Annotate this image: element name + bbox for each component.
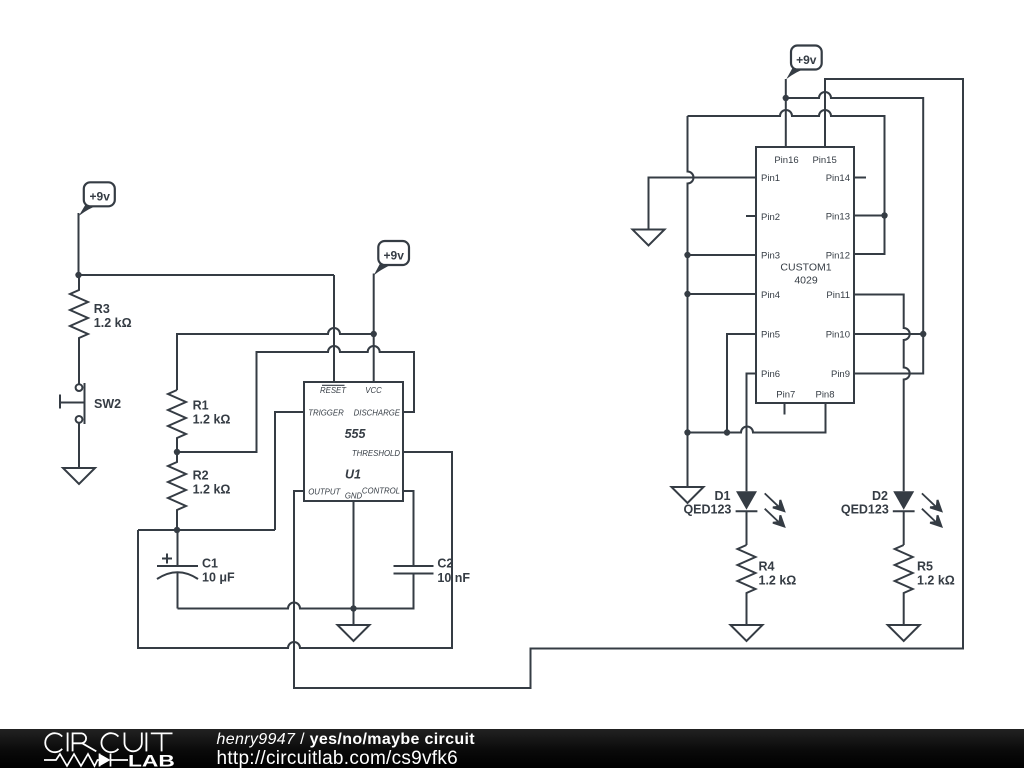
resistor R5 [895, 545, 913, 625]
resistor R3 [70, 275, 88, 384]
wire TRIGGER to R2 bottom [275, 412, 304, 530]
ground under R5 [888, 625, 920, 641]
svg-text:Pin1: Pin1 [761, 173, 780, 184]
wire Pin11 to D2 (x=905.5 with hops over y=334 and y=373.5) [854, 295, 910, 492]
switch SW2 [60, 383, 85, 468]
pin stub Pin7 [784, 403, 786, 415]
svg-text:1.2 kΩ: 1.2 kΩ [193, 412, 231, 426]
svg-text:Pin11: Pin11 [826, 290, 850, 301]
svg-text:QED123: QED123 [841, 503, 889, 517]
svg-text:Pin4: Pin4 [761, 290, 780, 301]
svg-text:CONTROL: CONTROL [362, 487, 400, 496]
diode D1 arrows [765, 493, 942, 526]
label CUSTOM1 4029 pin names [761, 155, 850, 401]
svg-text:TRIGGER: TRIGGER [308, 409, 344, 418]
ground under SW2 [63, 468, 95, 484]
diode D2 cathode bar and lead [893, 511, 915, 545]
svg-text:D2: D2 [872, 489, 888, 503]
svg-text:10 μF: 10 μF [202, 571, 235, 585]
svg-text:Pin3: Pin3 [761, 251, 780, 262]
svg-text:RESET: RESET [320, 386, 347, 395]
wire +9V rail to RESET (top-left horizontal) [79, 274, 335, 276]
power flag +9v right [786, 46, 822, 80]
svg-text:D1: D1 [715, 489, 731, 503]
svg-text:OUTPUT: OUTPUT [308, 488, 341, 497]
svg-text:+9v: +9v [384, 249, 405, 263]
footer bar [0, 729, 1024, 768]
svg-text:Pin7: Pin7 [776, 390, 795, 401]
svg-text:10 nF: 10 nF [437, 571, 470, 585]
svg-text:GND: GND [345, 492, 363, 501]
svg-text:C2: C2 [437, 557, 453, 571]
svg-text:Pin14: Pin14 [826, 173, 850, 184]
junction node VCC [371, 331, 377, 337]
svg-text:Pin10: Pin10 [826, 330, 850, 341]
svg-text:+9v: +9v [90, 189, 111, 203]
diode D1 triangle [736, 491, 757, 509]
svg-text:SW2: SW2 [94, 397, 121, 411]
wire 555 GND pin down [353, 501, 355, 609]
svg-text:R3: R3 [94, 302, 110, 316]
IC U1 555 timer box [304, 382, 403, 501]
label U1 pin names [308, 385, 401, 500]
svg-text:R5: R5 [917, 560, 933, 574]
svg-text:4029: 4029 [794, 275, 818, 287]
power flag +9v left [79, 182, 115, 216]
wire Pin10 [854, 333, 923, 335]
svg-text:Pin16: Pin16 [774, 155, 798, 166]
wire CONTROL to C2 top [403, 491, 414, 566]
ground under 555 [338, 609, 370, 642]
junction node R2/C1 [174, 527, 180, 533]
junction node Pin10 [920, 331, 926, 337]
svg-text:R1: R1 [193, 398, 209, 412]
wire R2 bottom rail (y=530) [138, 529, 275, 531]
ground at Pin1 [633, 230, 665, 246]
svg-text:C1: C1 [202, 557, 218, 571]
svg-text:1.2 kΩ: 1.2 kΩ [193, 483, 231, 497]
svg-text:555: 555 [345, 427, 367, 441]
svg-text:Pin9: Pin9 [831, 369, 850, 380]
resistor R1 [168, 390, 186, 452]
junction node R1/R2 [174, 449, 180, 455]
svg-text:QED123: QED123 [683, 503, 731, 517]
junction node at +9V/R3 [75, 272, 81, 278]
wire RESET drop (x=334 vertical to 555 RESET pin) [333, 275, 335, 382]
junction node GND/C1/C2 [350, 605, 356, 611]
junction node bottom net Pin5 [724, 429, 730, 435]
capacitor C1 [157, 530, 198, 609]
wire Pin5 down [727, 334, 756, 433]
pin stub Pin2 [746, 215, 756, 217]
svg-text:Pin12: Pin12 [826, 251, 850, 262]
resistor R2 [168, 452, 186, 530]
svg-text:1.2 kΩ: 1.2 kΩ [917, 574, 955, 588]
svg-text:Pin8: Pin8 [815, 390, 834, 401]
wire OUTPUT route (down, right, up to Pin15 of 4029) [294, 79, 963, 688]
svg-text:1.2 kΩ: 1.2 kΩ [94, 316, 132, 330]
wire Pin12/Pin13 net (y=116 with hops, down x=884.5) [688, 110, 885, 254]
wire +9V right to Pin9/Pin10 (y=98 hop over x=825, down x=923) [786, 92, 923, 374]
wire left rail to THRESHOLD (x=138 down, y=648 with hop, up x=452) [138, 452, 452, 648]
IC CUSTOM1 4029 counter box [756, 147, 854, 403]
junction node Pin4 [684, 291, 690, 297]
svg-text:Pin2: Pin2 [761, 212, 780, 223]
wire Pin3 [688, 254, 757, 256]
svg-text:THRESHOLD: THRESHOLD [352, 449, 400, 458]
junction node Pin3 [684, 252, 690, 258]
resistor R4 [738, 545, 756, 625]
svg-text:Pin15: Pin15 [812, 155, 836, 166]
junction node bottom net left [684, 429, 690, 435]
svg-text:CUSTOM1: CUSTOM1 [780, 262, 831, 274]
wire Pin4 [688, 293, 757, 295]
wire R1 top to VCC node (y=334 with hop over x=334) [177, 328, 374, 390]
pin stub Pin14 [854, 177, 866, 179]
CircuitLab logo [0, 729, 220, 768]
svg-text:DISCHARGE: DISCHARGE [354, 409, 401, 418]
wire carry-net vertical x=687.5 (hop over Pin1 wire) [688, 116, 694, 433]
junction node Pin13 [881, 212, 887, 218]
diode D2 triangle [893, 491, 914, 509]
wire bottom net y=432.5 (hop over x=747) to Pin8 [688, 403, 826, 433]
svg-text:1.2 kΩ: 1.2 kΩ [759, 574, 797, 588]
node +9V mid supply wire (VCC drop) [373, 274, 375, 383]
svg-text:Pin6: Pin6 [761, 369, 780, 380]
svg-text:U1: U1 [345, 467, 361, 481]
wire R1/R2 junction to DISCHARGE (y=352 with hops) [177, 346, 414, 452]
ground under x=687.5 [672, 433, 704, 504]
diode D2 arrows [922, 493, 936, 506]
node +9V right supply wire (Pin16 drop) [785, 79, 787, 147]
power flag +9v mid [374, 241, 409, 276]
wire Pin1 to ground [649, 178, 757, 230]
svg-text:VCC: VCC [365, 386, 382, 395]
ground under R4 [731, 625, 763, 641]
svg-text:LAB: LAB [128, 752, 175, 768]
svg-text:Pin5: Pin5 [761, 330, 780, 341]
wire Pin13 [854, 215, 885, 217]
wire C1 bottom to C2 bottom (y=608.5 with hop over x=294) [178, 574, 414, 609]
svg-text:R4: R4 [759, 560, 775, 574]
junction node +9V right [783, 95, 789, 101]
diode D1 cathode bar and lead [736, 511, 758, 545]
svg-text:Pin13: Pin13 [826, 212, 850, 223]
capacitor C2 [394, 566, 434, 574]
svg-text:+9v: +9v [796, 53, 817, 67]
node +9V left supply wire [78, 213, 80, 275]
svg-text:R2: R2 [193, 469, 209, 483]
wire Pin6 to D1 [747, 374, 757, 492]
